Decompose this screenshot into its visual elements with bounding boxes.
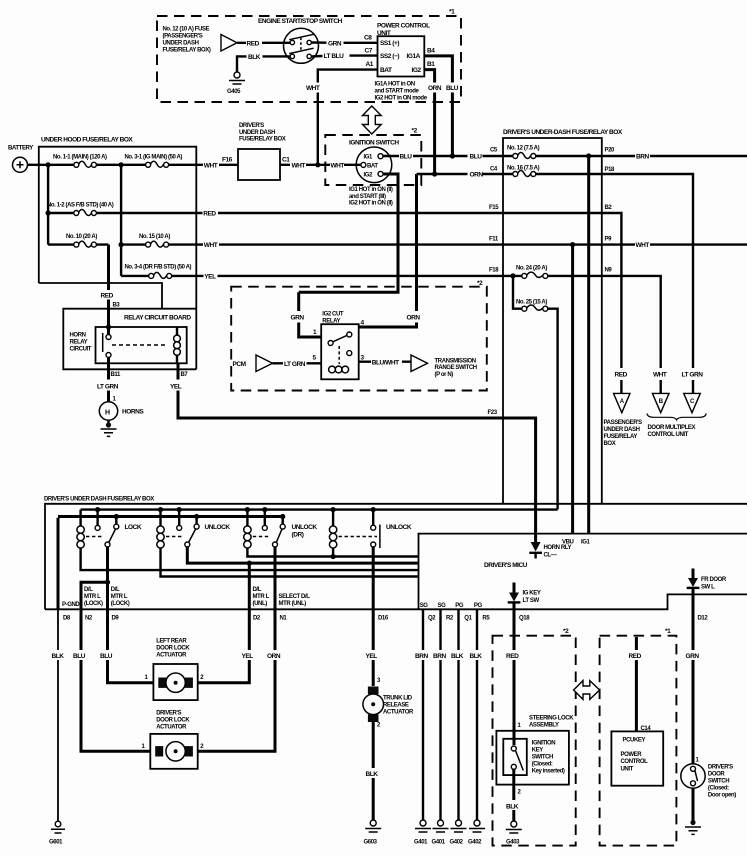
- pin id labels bottom-left box: [63, 616, 389, 622]
- svg-text:P-GND: P-GND: [62, 602, 80, 608]
- connector box F16/C1 (driver's under dash fuse/relay box): [222, 123, 290, 180]
- svg-text:DRIVER'S: DRIVER'S: [156, 711, 181, 717]
- wire battery to box: [28, 164, 49, 166]
- svg-text:BLU: BLU: [400, 154, 413, 161]
- svg-text:MTR L: MTR L: [111, 594, 128, 600]
- svg-text:G403: G403: [506, 840, 520, 846]
- svg-text:IG2 CUT: IG2 CUT: [322, 312, 344, 318]
- fuse No.16 (7.5A): [503, 166, 602, 177]
- svg-text:UNDER DASH: UNDER DASH: [163, 41, 199, 47]
- wire contact4 output to D16: [372, 547, 375, 609]
- svg-text:*1: *1: [665, 628, 671, 635]
- wire coil1 to MICU (w3): [81, 548, 419, 570]
- svg-text:ACTUATOR: ACTUATOR: [156, 653, 187, 659]
- wire contact1 output to N2/D9: [81, 547, 108, 609]
- svg-text:UNLOCK: UNLOCK: [292, 524, 318, 531]
- svg-text:Door open): Door open): [708, 793, 736, 799]
- driver's under dash fuse/relay box (bottom left): [44, 497, 747, 610]
- svg-text:KEY: KEY: [532, 748, 544, 754]
- wire BLK D8 to G601: [52, 609, 65, 821]
- svg-text:IG1A: IG1A: [407, 53, 421, 60]
- node P9 row junction VBU: [570, 242, 575, 247]
- wire WHT P9 to right edge: [602, 242, 747, 249]
- label passenger's under dash fuse/relay box: [604, 420, 643, 447]
- wire contact3 output to N1: [274, 547, 277, 609]
- svg-text:No. 10 (20 A): No. 10 (20 A): [66, 234, 97, 240]
- svg-text:ORN: ORN: [267, 653, 281, 660]
- svg-text:IG1: IG1: [364, 155, 374, 161]
- svg-text:H: H: [105, 410, 110, 417]
- svg-text:Key inserted): Key inserted): [532, 769, 565, 775]
- svg-text:SWITCH: SWITCH: [708, 779, 729, 785]
- svg-text:and START mode: and START mode: [375, 89, 420, 95]
- node: BLU row junction with B4 drop: [450, 153, 455, 158]
- wire BRN R2 to G401: [433, 609, 446, 820]
- wire WHT row into BAT terminal: [280, 162, 361, 169]
- svg-text:GRN: GRN: [686, 653, 700, 660]
- fuse No.15 (10A) row3b: [121, 234, 196, 247]
- wire LT BLU switch to C7: [311, 53, 377, 60]
- svg-text:SW L: SW L: [701, 584, 715, 590]
- wire VBU vertical to MICU: [571, 245, 574, 534]
- svg-text:DOOR: DOOR: [708, 772, 725, 778]
- note IG1 hot: [349, 187, 393, 207]
- svg-text:D12: D12: [698, 616, 709, 622]
- svg-text:WHT: WHT: [204, 242, 218, 249]
- svg-text:B11: B11: [111, 372, 122, 378]
- wire YEL D2 to left rear actuator pin2: [198, 609, 254, 682]
- FR door switch symbol in MICU: [687, 569, 727, 595]
- svg-text:STEERING LOCK: STEERING LOCK: [529, 716, 574, 722]
- svg-text:DRIVER'S UNDER-DASH FUSE/RELAY: DRIVER'S UNDER-DASH FUSE/RELAY BOX: [503, 129, 623, 136]
- battery: [8, 146, 33, 173]
- svg-text:LEFT REAR: LEFT REAR: [156, 639, 187, 645]
- left-right double arrow (connector mate indicator): [574, 681, 600, 700]
- ground G403: [506, 821, 522, 846]
- horn relay circuit label: [70, 333, 92, 353]
- wire coil3+coil4 to MICU (w1): [247, 548, 418, 556]
- svg-text:RELEASE: RELEASE: [383, 703, 409, 709]
- svg-text:POWER: POWER: [621, 752, 643, 758]
- svg-text:IG2 HOT in ON mode: IG2 HOT in ON mode: [375, 96, 428, 102]
- fuse No.25 (15A) branch: [513, 276, 558, 510]
- svg-text:ORN: ORN: [428, 85, 442, 92]
- svg-text:P18: P18: [605, 167, 616, 173]
- wire F11/P9 row through box: [503, 243, 602, 245]
- dashed box *1 (engine start/stop switch + power control unit): [157, 9, 461, 103]
- svg-text:F15: F15: [489, 205, 499, 211]
- wire WHT row1 exit to F16: [196, 162, 238, 169]
- triangle connector B: [652, 393, 669, 412]
- svg-text:BAT: BAT: [367, 163, 378, 169]
- svg-text:P9: P9: [605, 237, 613, 243]
- svg-text:FR DOOR: FR DOOR: [701, 577, 727, 583]
- brace door multiplex: [647, 414, 706, 420]
- driver's door switch SW3: [681, 764, 736, 799]
- svg-text:BLK: BLK: [470, 653, 483, 660]
- pin name labels bottom-left box: [62, 587, 310, 608]
- wire WHT from BAT A1 down to row1: [306, 70, 378, 164]
- svg-text:BLK: BLK: [451, 653, 464, 660]
- svg-text:B7: B7: [181, 372, 189, 378]
- fuse No.1-2 (AS F/B STD) (40A) row2: [47, 203, 196, 216]
- svg-text:BLU: BLU: [73, 653, 86, 660]
- fuse No.12 (7.5A): [503, 146, 602, 159]
- power control unit box U2: [611, 731, 663, 785]
- svg-text:UNDER DASH: UNDER DASH: [604, 427, 640, 433]
- wire ORN vertical down to IG2 cut relay pin 4: [359, 174, 417, 327]
- note IG1A hot: [375, 82, 428, 102]
- svg-text:R5: R5: [482, 616, 490, 622]
- svg-text:RED: RED: [506, 653, 519, 660]
- wire BLU D9 to left rear actuator pin1: [100, 609, 153, 682]
- wire BLK key switch to G403: [506, 769, 522, 821]
- svg-text:Q18: Q18: [519, 616, 530, 622]
- wire BLU N2 to driver's actuator pin1: [73, 609, 150, 751]
- svg-text:DOOR LOCK: DOOR LOCK: [156, 646, 190, 652]
- svg-text:BRN: BRN: [415, 653, 428, 660]
- PCM triangle connector: [233, 355, 273, 372]
- IG2 cut relay K2: [313, 312, 365, 380]
- wire ORN N1 to driver's actuator pin2: [198, 609, 281, 751]
- fuse No.10 (20A) row3: [48, 234, 108, 247]
- svg-text:LOCK: LOCK: [125, 524, 142, 531]
- wire BRN Q2 to G401: [415, 609, 428, 820]
- wire GRN D12 to driver's door switch: [686, 594, 700, 763]
- svg-text:A1: A1: [366, 61, 374, 68]
- svg-text:Q2: Q2: [428, 616, 436, 622]
- svg-text:SS1 (+): SS1 (+): [380, 40, 399, 47]
- wire IG1 vertical to MICU: [587, 156, 590, 534]
- svg-text:ORN: ORN: [470, 172, 484, 179]
- svg-text:FUSE/RELAY BOX: FUSE/RELAY BOX: [239, 137, 286, 143]
- svg-text:LT SW: LT SW: [523, 598, 540, 604]
- dashed box *2 (ignition switch): [325, 128, 421, 186]
- svg-text:BOX: BOX: [604, 441, 616, 447]
- wire RED to switch: [237, 40, 290, 47]
- svg-text:IGNITION SWITCH: IGNITION SWITCH: [349, 140, 399, 147]
- wire BLK from switch to ground: [237, 54, 290, 72]
- wire BRN P20 to right edge: [602, 154, 747, 161]
- node row1 mid junction: [119, 162, 124, 167]
- svg-text:F11: F11: [489, 237, 499, 243]
- svg-text:No. 12 (10 A) FUSE: No. 12 (10 A) FUSE: [163, 27, 210, 33]
- svg-text:DOOR LOCK: DOOR LOCK: [156, 718, 190, 724]
- svg-text:C7: C7: [365, 48, 373, 55]
- svg-text:BLU: BLU: [446, 85, 459, 92]
- vertical from row1 mid junction down to rows 3/4: [120, 165, 122, 276]
- svg-text:ACTUATOR: ACTUATOR: [156, 725, 187, 731]
- svg-text:CONTROL: CONTROL: [621, 759, 649, 765]
- svg-text:B3: B3: [113, 303, 121, 309]
- svg-text:*2: *2: [563, 628, 569, 635]
- svg-text:TRANSMISSION: TRANSMISSION: [435, 358, 476, 364]
- wire ORN from IG2 B1 down to ORN row: [424, 70, 442, 174]
- unlock (DR) relay K5: [244, 507, 318, 548]
- svg-text:DOOR MULTIPLEX: DOOR MULTIPLEX: [648, 425, 696, 431]
- bus B wire (P-GND): [58, 515, 283, 518]
- svg-text:LT GRN: LT GRN: [682, 372, 704, 379]
- svg-text:CONTROL UNIT: CONTROL UNIT: [648, 432, 689, 438]
- wire LT GRN PCM to pin 5: [273, 361, 322, 368]
- wire B11 LT GRN to horns: [97, 357, 121, 402]
- svg-text:LT GRN: LT GRN: [284, 361, 306, 368]
- svg-text:BATTERY: BATTERY: [8, 146, 33, 152]
- fuse No.3-1 (IG MAIN) (50A): [121, 155, 196, 168]
- svg-text:IG2: IG2: [412, 67, 422, 74]
- svg-text:WHT: WHT: [292, 162, 306, 169]
- svg-text:IG2: IG2: [364, 173, 374, 179]
- relay circuit board box: [63, 309, 196, 370]
- horn H1: [99, 397, 144, 421]
- driver's MICU box: [419, 534, 747, 610]
- node x121 row3: [119, 242, 124, 247]
- wire BLK Q1 to G402: [451, 609, 464, 820]
- svg-text:D2: D2: [253, 616, 261, 622]
- svg-text:YEL: YEL: [204, 274, 216, 281]
- svg-text:(PASSENGER'S: (PASSENGER'S: [163, 34, 203, 40]
- driver's door lock actuator M2: [142, 711, 205, 769]
- svg-text:G402: G402: [450, 840, 464, 846]
- fuse No.3-4 (DR F/B STD) (50A) row4: [121, 264, 196, 278]
- svg-text:RED: RED: [615, 372, 628, 379]
- svg-text:G405: G405: [227, 89, 241, 95]
- wire BLU/WHT pin 3 to transmission range switch: [359, 359, 411, 366]
- svg-text:IG KEY: IG KEY: [523, 591, 541, 597]
- wire B7 YEL to F23 run: [170, 363, 536, 545]
- svg-text:N2: N2: [85, 616, 93, 622]
- svg-text:No. 1-2 (AS F/B STD) (40 A): No. 1-2 (AS F/B STD) (40 A): [47, 203, 114, 209]
- connector triangle (fuse feed): [221, 35, 237, 52]
- MICU pin id labels: [428, 616, 708, 622]
- wire N9 to WHT triangle B: [602, 276, 661, 394]
- svg-text:CIRCUIT: CIRCUIT: [70, 347, 92, 353]
- MICU pin labels SG SG PG PG: [420, 603, 483, 609]
- triangle connector C: [684, 393, 701, 412]
- svg-text:MTR L: MTR L: [84, 594, 101, 600]
- svg-text:YEL: YEL: [170, 384, 182, 391]
- svg-text:RED: RED: [247, 40, 260, 47]
- svg-text:FUSE/RELAY BOX): FUSE/RELAY BOX): [163, 48, 211, 54]
- svg-text:(LOCK): (LOCK): [111, 601, 130, 607]
- svg-text:(P or N): (P or N): [435, 372, 454, 378]
- svg-text:Q1: Q1: [464, 616, 472, 622]
- svg-text:P20: P20: [605, 148, 616, 154]
- triangle connector A: [614, 393, 631, 412]
- svg-text:*2: *2: [477, 280, 483, 287]
- bus A wire (No.25 feed): [81, 508, 558, 510]
- svg-text:UNLOCK: UNLOCK: [205, 524, 231, 531]
- svg-text:SS2 (−): SS2 (−): [380, 53, 399, 60]
- label door multiplex control unit: [648, 425, 696, 438]
- svg-text:HORN RLY: HORN RLY: [544, 545, 572, 551]
- ignition switch SW1: [349, 140, 399, 183]
- wire BLU row from IG1 to C5: [383, 154, 503, 161]
- transmission range switch triangle connector: [411, 355, 477, 378]
- svg-text:IG1A HOT in ON: IG1A HOT in ON: [375, 82, 415, 88]
- svg-text:No. 3-4 (DR F/B STD) (50 A): No. 3-4 (DR F/B STD) (50 A): [125, 264, 192, 270]
- svg-text:F18: F18: [489, 268, 499, 274]
- wire RED No.10 output down to B3: [101, 245, 121, 337]
- node: WHT row junction at A1 drop: [315, 162, 320, 167]
- wire B2 to RED triangle A: [602, 213, 622, 393]
- node: ORN row junction with B1 drop: [432, 171, 437, 176]
- svg-text:POWER CONTROL: POWER CONTROL: [377, 23, 430, 30]
- svg-text:BRN: BRN: [433, 653, 446, 660]
- trunk lid release actuator M3: [363, 687, 414, 729]
- svg-text:BLK: BLK: [52, 653, 65, 660]
- wire GRN label into pin 1: [291, 292, 322, 337]
- svg-text:PCUKEY: PCUKEY: [623, 738, 646, 744]
- wire WHT row3 to F11: [196, 242, 503, 249]
- horn relay K1 inner box: [96, 324, 187, 363]
- svg-text:(UNL): (UNL): [253, 601, 268, 607]
- dashed box *1 power control unit: [600, 628, 677, 846]
- svg-text:(DR): (DR): [292, 532, 304, 539]
- svg-text:RED: RED: [629, 653, 642, 660]
- svg-text:TRUNK LID: TRUNK LID: [383, 696, 413, 702]
- svg-text:No. 16 (7.5 A): No. 16 (7.5 A): [507, 166, 540, 172]
- svg-text:SWITCH: SWITCH: [532, 755, 553, 761]
- svg-text:HORNS: HORNS: [122, 409, 144, 416]
- svg-text:C1: C1: [282, 157, 290, 164]
- svg-text:FUSE/RELAY: FUSE/RELAY: [604, 434, 638, 440]
- svg-text:D/L: D/L: [111, 587, 120, 593]
- svg-text:G402: G402: [468, 840, 482, 846]
- svg-text:D/L: D/L: [253, 587, 262, 593]
- pin labels right edge: [605, 148, 616, 274]
- svg-text:UNIT: UNIT: [621, 766, 634, 772]
- under hood fuse/relay box: [39, 137, 197, 370]
- wire RED Q18 to ignition key switch: [506, 609, 522, 745]
- svg-text:F16: F16: [222, 157, 233, 164]
- driver's under-dash fuse/relay box (top right): [503, 129, 623, 503]
- svg-text:IG1 HOT in ON (II): IG1 HOT in ON (II): [349, 187, 393, 193]
- svg-text:GRN: GRN: [328, 40, 342, 47]
- svg-text:WHT: WHT: [653, 372, 667, 379]
- wire RED row2 to F15: [196, 211, 503, 218]
- svg-text:C4: C4: [490, 167, 498, 173]
- left rear door lock actuator M1: [145, 639, 205, 701]
- svg-text:No. 15 (10 A): No. 15 (10 A): [139, 234, 170, 240]
- wire coil2 to MICU (w4): [161, 548, 419, 576]
- node bus top: [46, 162, 51, 167]
- svg-text:G401: G401: [432, 840, 446, 846]
- bottom edge line with FR door notch: [45, 594, 747, 609]
- svg-text:IG2 HOT in ON (II): IG2 HOT in ON (II): [349, 201, 393, 207]
- svg-text:D8: D8: [63, 616, 71, 622]
- svg-text:IGNITION: IGNITION: [532, 741, 556, 747]
- svg-text:CL—: CL—: [544, 553, 557, 559]
- unlock relay K6: [329, 507, 411, 548]
- dashed box *2 steering lock: [493, 628, 576, 846]
- svg-text:D/L: D/L: [84, 587, 93, 593]
- svg-text:RED: RED: [101, 293, 114, 300]
- power control unit box U1: [364, 23, 435, 77]
- svg-text:and START (III): and START (III): [349, 194, 386, 200]
- wire contact2 output to D2 and MICU (w2): [187, 547, 418, 563]
- svg-text:WHT: WHT: [636, 242, 650, 249]
- svg-text:F23: F23: [488, 410, 498, 416]
- svg-text:*2: *2: [412, 128, 418, 135]
- unlock relay K4: [157, 507, 231, 548]
- svg-text:SELECT D/L: SELECT D/L: [279, 594, 311, 600]
- svg-text:PG: PG: [455, 603, 464, 609]
- svg-text:UNDER DASH: UNDER DASH: [239, 130, 275, 136]
- svg-text:(Closed:: (Closed:: [532, 762, 553, 768]
- svg-text:SG: SG: [438, 603, 447, 609]
- ground G601: [49, 821, 65, 845]
- ignition key switch SW2: [503, 739, 565, 775]
- svg-text:B4: B4: [427, 48, 435, 55]
- svg-text:BLK: BLK: [248, 54, 261, 61]
- svg-text:BLU: BLU: [100, 653, 113, 660]
- svg-text:RANGE SWITCH: RANGE SWITCH: [435, 365, 477, 371]
- svg-text:N1: N1: [280, 616, 288, 622]
- svg-text:BAT: BAT: [380, 67, 392, 74]
- wire YEL row4 to F18: [196, 274, 503, 281]
- wire GRN switch to C8: [311, 40, 377, 47]
- svg-text:No. 1-1 (MAIN) (120 A): No. 1-1 (MAIN) (120 A): [53, 155, 107, 161]
- lock relay K3: [77, 507, 142, 548]
- svg-text:ASSEMBLY: ASSEMBLY: [529, 723, 559, 729]
- svg-text:R2: R2: [446, 616, 454, 622]
- svg-text:DRIVER'S: DRIVER'S: [239, 123, 264, 129]
- svg-text:D16: D16: [378, 616, 389, 622]
- svg-text:C8: C8: [364, 35, 372, 42]
- wire battery bus vertical: [47, 165, 49, 245]
- node contact1 split: [105, 580, 110, 585]
- svg-text:DRIVER'S MICU: DRIVER'S MICU: [484, 562, 528, 569]
- svg-text:B1: B1: [427, 61, 435, 68]
- svg-text:BRN: BRN: [636, 154, 649, 161]
- svg-text:RED: RED: [203, 211, 216, 218]
- svg-text:UNDER HOOD FUSE/RELAY BOX: UNDER HOOD FUSE/RELAY BOX: [41, 137, 133, 144]
- wire RED to PCUKEY C14: [629, 637, 652, 732]
- node bus row2: [46, 210, 51, 215]
- svg-text:SG: SG: [420, 603, 429, 609]
- svg-text:G601: G601: [49, 840, 63, 846]
- svg-text:No. 12 (7.5 A): No. 12 (7.5 A): [507, 146, 540, 152]
- svg-text:IG1: IG1: [581, 540, 591, 546]
- pin labels left edge: [489, 148, 499, 274]
- wire BLU from IG1A B4 down to BLU row: [424, 56, 458, 156]
- svg-text:BLK: BLK: [366, 771, 379, 778]
- svg-text:HORN: HORN: [70, 333, 86, 339]
- steering lock assembly box: [496, 716, 574, 785]
- fuse No.1-1 (MAIN) (120A): [48, 155, 121, 168]
- engine start/stop switch: [258, 18, 343, 63]
- svg-text:G401: G401: [414, 840, 428, 846]
- dashed box *2 (IG2 cut relay / PCM): [231, 280, 487, 391]
- wire YEL D16 to trunk actuator: [366, 609, 382, 686]
- node D2 branch: [247, 561, 252, 566]
- svg-text:RELAY: RELAY: [70, 340, 88, 346]
- horn relay coil symbol in MICU: [529, 542, 571, 559]
- svg-text:ORN: ORN: [407, 315, 421, 322]
- svg-text:YEL: YEL: [366, 653, 378, 660]
- fuse No.24 (20A): [503, 266, 602, 279]
- svg-text:PG: PG: [474, 603, 483, 609]
- svg-text:RELAY CIRCUIT BOARD: RELAY CIRCUIT BOARD: [124, 315, 191, 322]
- svg-text:N9: N9: [605, 268, 613, 274]
- svg-text:BLU/WHT: BLU/WHT: [372, 359, 399, 366]
- svg-text:WHT: WHT: [204, 162, 218, 169]
- wire IG2 from ignition down to IG2 cut relay (GRN net): [299, 174, 398, 292]
- wire BLK trunk to G603: [366, 722, 379, 820]
- svg-text:C5: C5: [490, 148, 498, 154]
- node P20 row junction: [586, 153, 591, 158]
